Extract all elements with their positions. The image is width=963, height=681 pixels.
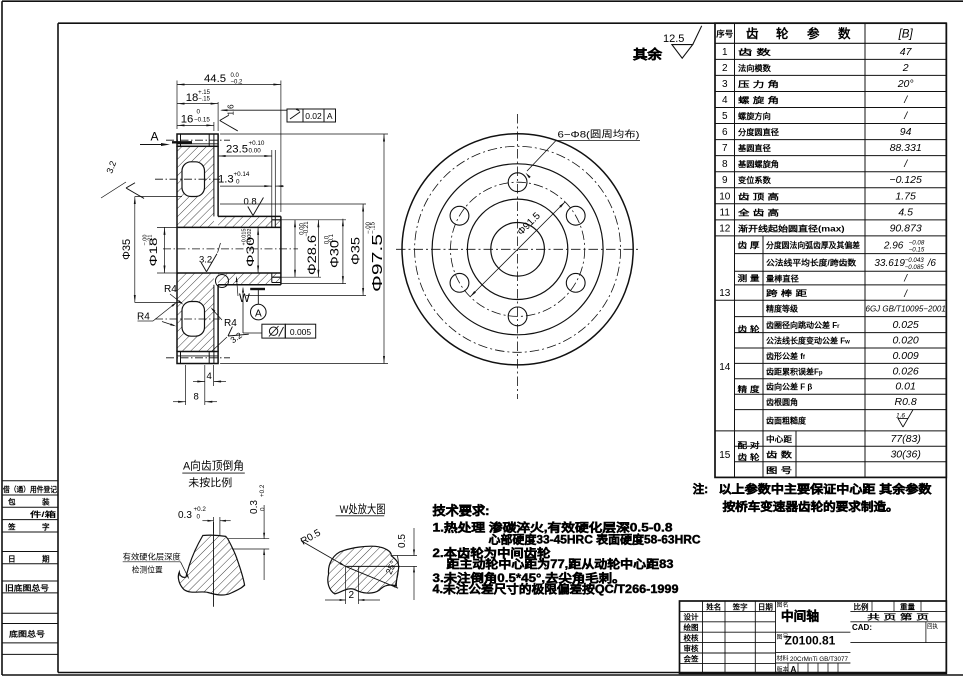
- svg-text:A: A: [151, 130, 159, 144]
- svg-text:30(36): 30(36): [890, 448, 920, 460]
- svg-text:[B]: [B]: [898, 29, 914, 41]
- svg-text:公法线长度变动公差 Fw: 公法线长度变动公差 Fw: [766, 336, 850, 346]
- svg-text:10: 10: [719, 191, 731, 202]
- svg-text:Φ28.6: Φ28.6: [305, 235, 319, 275]
- svg-text:期: 期: [42, 553, 50, 563]
- svg-text:跨 棒 距: 跨 棒 距: [766, 288, 807, 298]
- svg-text:6: 6: [722, 127, 728, 138]
- svg-text:−.21: −.21: [148, 235, 154, 246]
- svg-text:77(83): 77(83): [890, 433, 920, 445]
- svg-text:+0.10: +0.10: [249, 140, 265, 147]
- svg-text:审核: 审核: [684, 644, 700, 653]
- svg-text:33.619: 33.619: [874, 258, 905, 269]
- svg-text:0.009: 0.009: [893, 350, 919, 362]
- svg-text:0.025: 0.025: [893, 319, 919, 331]
- svg-text:0: 0: [197, 514, 201, 521]
- svg-text:齿根圆角: 齿根圆角: [766, 397, 798, 407]
- svg-text:有效硬化层深度: 有效硬化层深度: [123, 552, 181, 562]
- svg-text:基圆直径: 基圆直径: [737, 143, 772, 153]
- svg-text:Z0100.81: Z0100.81: [785, 634, 836, 648]
- svg-text:−.15: −.15: [371, 221, 377, 234]
- svg-text:比例: 比例: [854, 602, 869, 611]
- svg-text:R4: R4: [224, 318, 237, 329]
- svg-text:R0.8: R0.8: [895, 396, 917, 408]
- svg-text:11: 11: [720, 207, 731, 218]
- svg-text:齿圈径向跳动公差 Fr: 齿圈径向跳动公差 Fr: [766, 320, 840, 330]
- svg-text:装: 装: [41, 497, 50, 507]
- svg-text:23.5: 23.5: [226, 144, 248, 156]
- svg-text:20CrMnTi GB/T3077: 20CrMnTi GB/T3077: [790, 656, 848, 663]
- svg-text:变位系数: 变位系数: [738, 175, 772, 185]
- svg-text:齿: 齿: [746, 26, 759, 41]
- svg-text:0: 0: [260, 507, 267, 511]
- svg-text:4: 4: [207, 371, 212, 382]
- svg-text:测 量: 测 量: [738, 273, 760, 283]
- svg-text:2: 2: [349, 590, 355, 601]
- svg-text:0.020: 0.020: [893, 335, 919, 347]
- svg-text:全 齿 高: 全 齿 高: [737, 207, 779, 217]
- svg-text:88.331: 88.331: [890, 142, 922, 154]
- svg-text:9: 9: [722, 175, 728, 186]
- svg-text:44.5: 44.5: [204, 73, 226, 85]
- svg-text:件/箱: 件/箱: [30, 509, 57, 519]
- svg-text:0.8: 0.8: [244, 197, 257, 208]
- svg-text:0.3: 0.3: [249, 500, 260, 514]
- svg-text:轮: 轮: [776, 26, 789, 41]
- svg-text:20°: 20°: [897, 78, 914, 90]
- svg-text:图 号: 图 号: [766, 466, 792, 475]
- svg-text:−0.043: −0.043: [905, 257, 925, 264]
- svg-text:0.005: 0.005: [290, 327, 312, 337]
- svg-text:渐开线起始圆直径(max): 渐开线起始圆直径(max): [738, 223, 845, 233]
- svg-text:12.5: 12.5: [663, 33, 684, 45]
- svg-text:+.15: +.15: [198, 90, 211, 96]
- svg-text:Φ97.5: Φ97.5: [370, 234, 386, 292]
- svg-text:未按比例: 未按比例: [188, 476, 232, 489]
- svg-text:齿 顶 高: 齿 顶 高: [738, 191, 779, 201]
- svg-text:A: A: [255, 308, 262, 319]
- svg-text:A向齿顶倒角: A向齿顶倒角: [183, 459, 244, 473]
- svg-text:底图总号: 底图总号: [9, 629, 45, 639]
- svg-text:齿距累积误差Fp: 齿距累积误差Fp: [766, 366, 823, 376]
- svg-text:CAD:: CAD:: [852, 623, 872, 632]
- svg-text:其余: 其余: [633, 47, 663, 62]
- svg-text:齿向公差 F β: 齿向公差 F β: [766, 382, 812, 392]
- svg-text:/6: /6: [927, 258, 937, 269]
- svg-text:中心距: 中心距: [766, 434, 792, 444]
- svg-text:图名: 图名: [777, 601, 789, 609]
- svg-text:螺 旋 角: 螺 旋 角: [738, 95, 779, 105]
- svg-text:精度等级: 精度等级: [766, 304, 799, 314]
- svg-text:配 对: 配 对: [738, 440, 761, 450]
- svg-text:重量: 重量: [900, 602, 916, 611]
- svg-text:材料: 材料: [777, 655, 789, 663]
- svg-text:以上参数中主要保证中心距 其余参数: 以上参数中主要保证中心距 其余参数: [719, 482, 933, 496]
- svg-text:0.5: 0.5: [397, 534, 408, 548]
- svg-text:绘图: 绘图: [684, 623, 699, 632]
- svg-text:包: 包: [8, 497, 16, 507]
- svg-text:心部硬度33-45HRC 表面硬度58-63HRC: 心部硬度33-45HRC 表面硬度58-63HRC: [489, 533, 701, 547]
- svg-text:齿 数: 齿 数: [766, 449, 793, 459]
- svg-text:注:: 注:: [693, 482, 708, 496]
- svg-text:日期: 日期: [758, 602, 773, 611]
- svg-text:量棒直径: 量棒直径: [766, 273, 799, 283]
- svg-text:2: 2: [722, 63, 728, 74]
- svg-text:8: 8: [194, 392, 199, 403]
- svg-text:姓名: 姓名: [706, 602, 721, 611]
- svg-text:−0.1: −0.1: [329, 233, 335, 246]
- svg-text:距主动轮中心距为77,距从动轮中心距83: 距主动轮中心距为77,距从动轮中心距83: [447, 557, 674, 571]
- svg-text:齿 轮: 齿 轮: [738, 324, 761, 334]
- svg-text:签: 签: [7, 521, 16, 531]
- svg-text:−0.21: −0.21: [304, 221, 310, 237]
- svg-text:2: 2: [902, 62, 909, 74]
- svg-text:4.5: 4.5: [898, 206, 913, 218]
- svg-text:12: 12: [719, 223, 731, 234]
- svg-text:0.01: 0.01: [895, 381, 915, 393]
- svg-text:−.15: −.15: [198, 97, 211, 103]
- svg-text:基圆螺旋角: 基圆螺旋角: [737, 159, 779, 169]
- svg-text:R4: R4: [164, 284, 177, 295]
- svg-text:3: 3: [722, 79, 728, 90]
- svg-text:压 力 角: 压 力 角: [738, 79, 779, 89]
- svg-text:−0.2: −0.2: [231, 80, 244, 86]
- svg-text:螺旋方向: 螺旋方向: [738, 111, 771, 121]
- svg-text:A: A: [327, 111, 333, 121]
- svg-text:齿 轮: 齿 轮: [738, 452, 761, 462]
- svg-text:15: 15: [719, 450, 731, 461]
- svg-text:W处放大图: W处放大图: [340, 502, 386, 516]
- svg-text:回执: 回执: [927, 623, 938, 631]
- svg-text:版本: 版本: [777, 666, 789, 674]
- svg-text:−0.15: −0.15: [909, 247, 925, 254]
- svg-text:精 度: 精 度: [738, 384, 761, 394]
- svg-text:47: 47: [900, 46, 913, 58]
- svg-text:1.75: 1.75: [895, 190, 916, 202]
- svg-text:16: 16: [181, 114, 194, 126]
- svg-text:0: 0: [197, 109, 201, 116]
- svg-text:检测位置: 检测位置: [132, 565, 163, 575]
- svg-text:13: 13: [719, 288, 731, 299]
- svg-text:会签: 会签: [684, 654, 700, 663]
- svg-text:齿 数: 齿 数: [738, 47, 772, 57]
- svg-text:−0.08: −0.08: [909, 240, 925, 247]
- svg-text:6GJ GB/T10095−2001: 6GJ GB/T10095−2001: [866, 305, 946, 314]
- svg-text:齿 厚: 齿 厚: [738, 240, 760, 250]
- svg-text:齿形公差 ff: 齿形公差 ff: [766, 351, 806, 361]
- svg-text:2.本齿轮为中间齿轮: 2.本齿轮为中间齿轮: [433, 546, 552, 560]
- svg-text:−0.125: −0.125: [889, 174, 922, 186]
- svg-text:分度圆法向弧齿厚及其偏差: 分度圆法向弧齿厚及其偏差: [766, 240, 860, 250]
- svg-text:Φ35: Φ35: [349, 237, 363, 265]
- svg-text:校核: 校核: [684, 634, 700, 643]
- svg-text:字: 字: [42, 521, 50, 531]
- svg-text:7: 7: [722, 143, 728, 154]
- svg-text:0.02: 0.02: [305, 111, 322, 121]
- svg-text:+0.2: +0.2: [194, 506, 207, 513]
- svg-text:1: 1: [722, 47, 728, 58]
- svg-text:借（通）用件登记: 借（通）用件登记: [2, 485, 57, 494]
- svg-text:0.00: 0.00: [249, 148, 262, 155]
- svg-text:序号: 序号: [716, 29, 733, 39]
- svg-text:0.3: 0.3: [178, 510, 192, 521]
- svg-text:技术要求:: 技术要求:: [433, 503, 490, 518]
- svg-text:1.6: 1.6: [227, 104, 236, 116]
- svg-text:94: 94: [900, 126, 912, 138]
- svg-text:A: A: [791, 665, 797, 674]
- svg-text:公法线平均长度/跨齿数: 公法线平均长度/跨齿数: [766, 258, 857, 268]
- svg-text:1.6: 1.6: [896, 413, 905, 420]
- svg-text:0.026: 0.026: [893, 365, 919, 377]
- svg-text:8: 8: [722, 159, 728, 170]
- svg-text:按桥车变速器齿轮的要求制造。: 按桥车变速器齿轮的要求制造。: [723, 500, 899, 514]
- svg-text:6−Φ8(圆周均布): 6−Φ8(圆周均布): [558, 129, 640, 141]
- svg-text:5: 5: [722, 111, 728, 122]
- svg-text:0: 0: [236, 179, 240, 186]
- svg-text:法向模数: 法向模数: [738, 63, 772, 73]
- svg-text:4: 4: [722, 95, 728, 106]
- svg-text:齿面粗糙度: 齿面粗糙度: [766, 415, 807, 425]
- svg-text:18: 18: [186, 92, 199, 104]
- svg-text:旧底图总号: 旧底图总号: [5, 583, 49, 593]
- svg-text:0.0: 0.0: [231, 73, 240, 79]
- svg-text:14: 14: [719, 362, 731, 373]
- svg-text:+0.2: +0.2: [259, 484, 266, 497]
- svg-text:W: W: [239, 293, 250, 305]
- svg-text:日: 日: [8, 554, 16, 563]
- svg-text:+0.002: +0.002: [247, 229, 253, 246]
- svg-text:参: 参: [807, 26, 820, 41]
- svg-text:3.2: 3.2: [199, 255, 212, 266]
- svg-text:中间轴: 中间轴: [781, 609, 819, 624]
- svg-text:3.未注倒角0.5*45°,去尖角毛刺。: 3.未注倒角0.5*45°,去尖角毛刺。: [433, 571, 626, 585]
- svg-text:1.热处理 渗碳淬火,有效硬化层深0.5-0.8: 1.热处理 渗碳淬火,有效硬化层深0.5-0.8: [433, 521, 674, 535]
- svg-text:2.96: 2.96: [883, 241, 904, 252]
- svg-text:4.未注公差尺寸的极限偏差按QC/T266-1999: 4.未注公差尺寸的极限偏差按QC/T266-1999: [433, 582, 679, 596]
- svg-text:共 页 第 页: 共 页 第 页: [867, 613, 929, 622]
- svg-text:−0.085: −0.085: [905, 264, 925, 271]
- svg-text:−0.15: −0.15: [194, 117, 210, 124]
- svg-text:设计: 设计: [684, 613, 700, 622]
- svg-text:+0.14: +0.14: [234, 171, 250, 178]
- svg-text:数: 数: [837, 26, 851, 41]
- svg-text:签字: 签字: [732, 602, 748, 611]
- svg-text:Φ35: Φ35: [121, 239, 133, 260]
- svg-text:90.873: 90.873: [890, 222, 922, 234]
- svg-text:分度圆直径: 分度圆直径: [738, 127, 780, 137]
- svg-text:1.3: 1.3: [218, 174, 234, 186]
